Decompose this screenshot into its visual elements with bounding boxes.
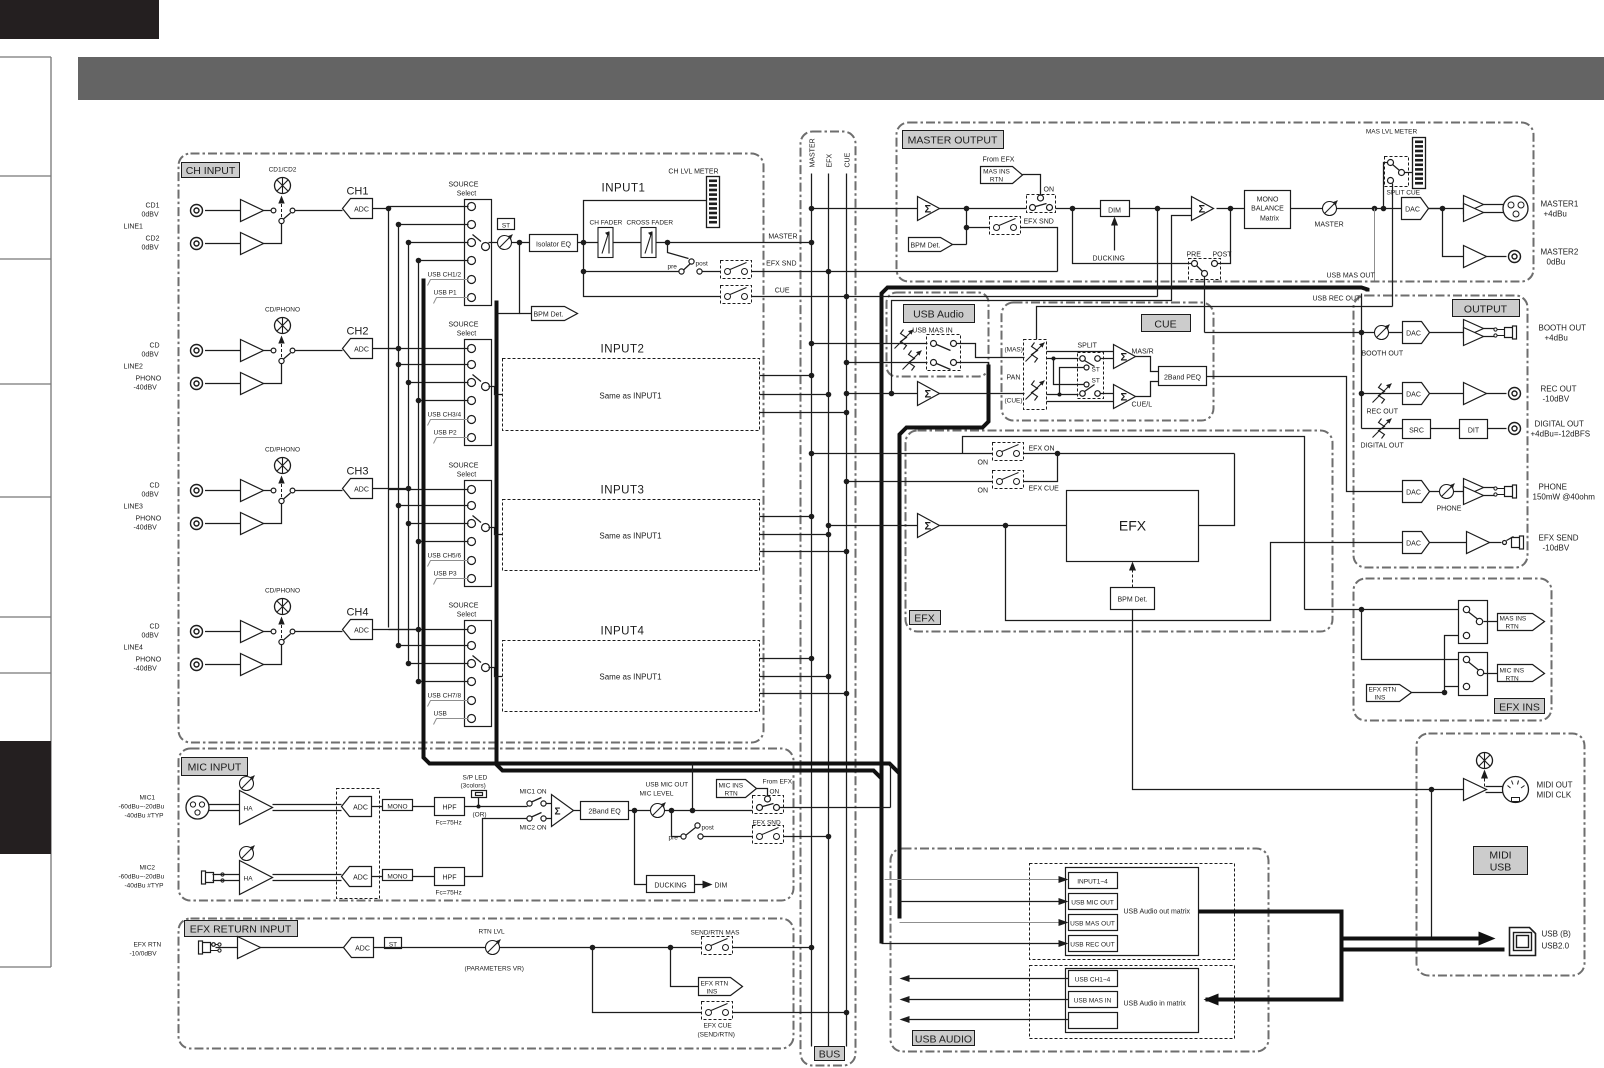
svg-text:PHONO: PHONO	[136, 657, 162, 664]
svg-text:CH2: CH2	[346, 326, 368, 338]
svg-text:0dBV: 0dBV	[142, 352, 159, 359]
ADC	[344, 938, 374, 958]
MAS INS switch	[1459, 601, 1488, 644]
CH LVL METER	[584, 201, 713, 243]
wire ADC distribution verticals	[388, 207, 390, 628]
svg-text:HA: HA	[244, 876, 254, 883]
thick out matrix to USB connector	[1199, 912, 1342, 1000]
svg-text:EFX RETURN INPUT: EFX RETURN INPUT	[190, 924, 292, 936]
EFX RETURN INPUT section border	[179, 919, 794, 1049]
svg-text:CD: CD	[150, 343, 160, 350]
svg-text:Isolator EQ: Isolator EQ	[536, 242, 572, 249]
svg-text:CD1/CD2: CD1/CD2	[269, 167, 297, 174]
svg-text:PHONO: PHONO	[136, 516, 162, 523]
svg-text:CD: CD	[150, 624, 160, 631]
svg-text:Select: Select	[457, 472, 477, 479]
select3 to INPUT3	[489, 528, 503, 535]
svg-text:USB AUDIO: USB AUDIO	[915, 1034, 972, 1046]
svg-text:pre: pre	[668, 264, 678, 271]
svg-text:USB CH1~4: USB CH1~4	[1075, 977, 1111, 984]
BOOTH OUT row	[1205, 332, 1403, 334]
MIDI DIN connector	[1503, 777, 1529, 803]
blank box	[1069, 1013, 1118, 1029]
svg-text:USB CH3/4: USB CH3/4	[428, 412, 462, 419]
MASTER send wire	[656, 242, 812, 244]
svg-text:MONO: MONO	[1257, 197, 1279, 204]
svg-text:SPLIT CUE: SPLIT CUE	[1387, 190, 1421, 197]
svg-text:EFX SND: EFX SND	[1024, 219, 1054, 226]
svg-text:USB REC OUT: USB REC OUT	[1070, 942, 1114, 949]
svg-text:(SEND/RTN): (SEND/RTN)	[698, 1032, 735, 1039]
svg-text:MAS INS: MAS INS	[1500, 616, 1527, 623]
svg-text:RTN: RTN	[725, 791, 739, 798]
svg-text:MIC INS: MIC INS	[1500, 668, 1525, 675]
svg-text:CD: CD	[150, 483, 160, 490]
page header black block	[0, 0, 159, 39]
pot trim	[498, 235, 513, 250]
DIGITAL OUT row	[1362, 428, 1403, 430]
svg-text:MIC INS: MIC INS	[719, 783, 744, 790]
svg-text:BPM Det.: BPM Det.	[534, 312, 564, 319]
svg-text:BPM Det.: BPM Det.	[1118, 597, 1148, 604]
svg-text:EFX: EFX	[1119, 518, 1147, 534]
svg-text:RTN LVL: RTN LVL	[479, 929, 506, 936]
svg-text:From EFX: From EFX	[763, 779, 793, 786]
MIC out riser	[890, 765, 892, 808]
svg-text:EFX SND: EFX SND	[766, 261, 796, 268]
svg-text:USB Audio in matrix: USB Audio in matrix	[1124, 1001, 1187, 1008]
svg-text:INPUT3: INPUT3	[601, 485, 645, 497]
DUCKING arrow into DIM	[1114, 220, 1116, 251]
MIC2 HA amp	[213, 874, 240, 876]
feed from split cue	[1037, 307, 1393, 340]
svg-text:(CUE): (CUE)	[1005, 398, 1023, 405]
EFX RETURN INPUT label	[185, 921, 298, 937]
svg-text:Same as INPUT1: Same as INPUT1	[599, 673, 662, 682]
svg-text:USB P1: USB P1	[434, 290, 458, 297]
REC OUT row	[1362, 393, 1403, 395]
svg-text:BOOTH OUT: BOOTH OUT	[1539, 324, 1587, 333]
ST box	[498, 219, 515, 230]
EFX output loop	[1199, 454, 1235, 526]
USB Audio label	[904, 305, 975, 323]
svg-text:CH INPUT: CH INPUT	[186, 165, 236, 177]
bus CUE line	[846, 174, 848, 1047]
svg-text:EFX SND: EFX SND	[753, 820, 781, 827]
svg-text:Same as INPUT1: Same as INPUT1	[599, 532, 662, 541]
svg-text:DUCKING: DUCKING	[1093, 256, 1125, 263]
svg-text:USB MAS OUT: USB MAS OUT	[1070, 921, 1115, 928]
switch outputs	[957, 344, 1025, 358]
svg-text:BPM Det.: BPM Det.	[911, 243, 941, 250]
svg-text:0dBV: 0dBV	[142, 245, 159, 252]
CUE/L sum	[1114, 385, 1136, 409]
wire cue pickup vertical	[1157, 209, 1159, 297]
svg-text:MASTER: MASTER	[768, 234, 797, 241]
bus EFX line	[828, 174, 830, 1047]
svg-text:Σ: Σ	[555, 807, 561, 818]
mic sum	[546, 803, 552, 805]
master sum amp	[918, 197, 940, 221]
svg-text:EFX INS: EFX INS	[1499, 702, 1540, 714]
INPUT1~4 box	[1069, 873, 1118, 889]
out matrix box	[1066, 868, 1199, 956]
usb wire from midi node	[1432, 790, 1491, 939]
svg-text:MAS LVL METER: MAS LVL METER	[1366, 129, 1418, 136]
EFX CUE switch	[847, 481, 993, 483]
MIDI USB label	[1474, 847, 1528, 875]
svg-text:ST: ST	[1092, 378, 1100, 385]
svg-text:CD1: CD1	[146, 203, 160, 210]
svg-text:post: post	[702, 825, 714, 832]
EFX send path	[1006, 526, 1403, 621]
DUCKING box	[635, 811, 647, 885]
svg-text:USB CH7/8: USB CH7/8	[428, 693, 462, 700]
svg-text:MIDI: MIDI	[1489, 850, 1511, 862]
svg-text:Fc=75Hz: Fc=75Hz	[436, 820, 462, 827]
svg-text:USB MAS IN: USB MAS IN	[1074, 998, 1112, 1005]
svg-text:0dBu: 0dBu	[1547, 258, 1566, 267]
CUE label	[1142, 315, 1191, 332]
svg-text:0dBV: 0dBV	[142, 212, 159, 219]
bypass wire upper	[963, 437, 1305, 610]
svg-text:+4dBu=-12dBFS: +4dBu=-12dBFS	[1531, 430, 1591, 439]
svg-text:ON: ON	[978, 488, 989, 495]
USB audio sum	[918, 382, 940, 406]
svg-text:MONO: MONO	[387, 804, 407, 811]
svg-text:ST: ST	[502, 223, 510, 230]
svg-text:CROSS FADER: CROSS FADER	[627, 220, 674, 227]
svg-text:EFX CUE: EFX CUE	[1029, 486, 1060, 493]
svg-text:RTN: RTN	[990, 177, 1004, 184]
EFX CUE switch	[593, 948, 702, 1013]
svg-text:EFX CUE: EFX CUE	[704, 1023, 733, 1030]
svg-text:LINE4: LINE4	[124, 645, 144, 652]
svg-text:BALANCE: BALANCE	[1251, 206, 1284, 213]
svg-text:SOURCE: SOURCE	[449, 603, 479, 610]
MIC1 ADC dashed enclosure	[337, 789, 380, 899]
svg-text:-10dBV: -10dBV	[1543, 544, 1570, 553]
svg-text:ON: ON	[770, 789, 780, 796]
svg-text:Fc=75Hz: Fc=75Hz	[436, 890, 462, 897]
svg-text:MONO: MONO	[387, 874, 407, 881]
OUTPUT label	[1453, 300, 1520, 317]
attenuator outputs	[1047, 351, 1114, 353]
svg-text:USB REC OUT: USB REC OUT	[1313, 296, 1362, 303]
svg-text:MIC2: MIC2	[140, 865, 156, 872]
MIDI USB section border	[1417, 734, 1585, 976]
svg-text:MASTER: MASTER	[1315, 222, 1344, 229]
svg-text:CD/PHONO: CD/PHONO	[265, 588, 300, 595]
svg-text:DIGITAL OUT: DIGITAL OUT	[1361, 443, 1405, 450]
svg-text:(3colors): (3colors)	[461, 783, 486, 790]
svg-text:post: post	[696, 261, 708, 268]
svg-text:DUCKING: DUCKING	[654, 883, 686, 890]
svg-text:-10/0dBV: -10/0dBV	[130, 951, 158, 958]
thick USB bus vertical right	[497, 301, 882, 939]
svg-text:POST: POST	[1213, 252, 1233, 259]
thick USB bus vertical left	[424, 279, 900, 897]
svg-text:-40dBu #TYP: -40dBu #TYP	[125, 883, 164, 890]
cross connections	[1054, 359, 1084, 385]
USB AUDIO section border	[891, 849, 1269, 1052]
USB REC OUT box	[1069, 936, 1118, 952]
svg-text:DIGITAL OUT: DIGITAL OUT	[1535, 420, 1584, 429]
svg-text:PHONE: PHONE	[1437, 506, 1462, 513]
svg-text:CUE: CUE	[775, 288, 790, 295]
EFX RTN INS tag	[671, 948, 699, 987]
USB CH1~4 box	[1069, 971, 1118, 987]
svg-text:0dBV: 0dBV	[142, 633, 159, 640]
EFX SND switch INPUT1	[702, 271, 721, 273]
svg-text:2Band PEQ: 2Band PEQ	[1164, 375, 1202, 382]
attenuators	[895, 330, 914, 350]
svg-text:CH1: CH1	[346, 186, 368, 198]
svg-text:PHONE: PHONE	[1539, 483, 1567, 492]
XLR master1	[1503, 196, 1528, 221]
svg-text:PAN: PAN	[1007, 375, 1021, 382]
svg-text:Matrix: Matrix	[1260, 216, 1280, 223]
DIM box	[1101, 201, 1130, 217]
EFX block	[1067, 491, 1199, 562]
wire pot to isolator	[512, 242, 530, 244]
EFX ON switch	[812, 453, 993, 455]
svg-text:DIM: DIM	[715, 883, 728, 890]
CH INPUT label	[182, 163, 240, 178]
svg-text:MIC LEVEL: MIC LEVEL	[640, 791, 674, 798]
svg-text:(MAS): (MAS)	[1005, 347, 1023, 354]
svg-text:MIDI OUT: MIDI OUT	[1537, 781, 1573, 790]
svg-text:PRE: PRE	[1187, 252, 1202, 259]
EFX SND branch master	[966, 209, 968, 245]
MAS/R sum	[1114, 345, 1136, 369]
MIC INS RTN tag	[1484, 673, 1498, 675]
BPM to MIDI wire	[1133, 610, 1464, 790]
svg-text:SOURCE: SOURCE	[449, 463, 479, 470]
svg-text:INPUT4: INPUT4	[601, 626, 645, 638]
svg-text:CH FADER: CH FADER	[590, 220, 623, 227]
left page tab column	[0, 57, 51, 967]
USB Audio section border	[887, 293, 989, 377]
svg-text:EFX RTN: EFX RTN	[1369, 687, 1397, 694]
MIC INPUT label	[182, 758, 248, 776]
svg-text:SOURCE: SOURCE	[449, 182, 479, 189]
svg-text:-40dBV: -40dBV	[134, 525, 158, 532]
MIC1 HA amp	[209, 804, 240, 806]
svg-text:MASTER1: MASTER1	[1541, 200, 1579, 209]
svg-text:SEND/RTN MAS: SEND/RTN MAS	[691, 930, 741, 937]
out matrix dashed border	[1030, 864, 1235, 960]
HPF box 2	[435, 868, 465, 886]
svg-text:USB MIC OUT: USB MIC OUT	[1071, 900, 1114, 907]
MIC INS switch	[1459, 653, 1488, 696]
svg-text:MASTER2: MASTER2	[1541, 248, 1579, 257]
MASTER OUTPUT label	[903, 131, 1004, 149]
2Band EQ box	[581, 802, 629, 820]
USB MAS OUT box	[1069, 915, 1118, 931]
svg-text:EFX RTN: EFX RTN	[701, 981, 729, 988]
svg-text:REC OUT: REC OUT	[1541, 385, 1577, 394]
second input loop	[892, 216, 1192, 394]
svg-text:CD/PHONO: CD/PHONO	[265, 447, 300, 454]
svg-text:MAS/R: MAS/R	[1132, 349, 1154, 356]
svg-text:(OR): (OR)	[473, 812, 487, 819]
midi lamp	[1477, 753, 1493, 769]
svg-text:MAS INS: MAS INS	[983, 169, 1010, 176]
wire isolator to faders	[578, 242, 599, 244]
wire bus to master sum	[812, 208, 918, 210]
svg-text:USB Audio out matrix: USB Audio out matrix	[1124, 909, 1191, 916]
svg-text:LINE1: LINE1	[124, 224, 144, 231]
in matrix dashed border	[1030, 966, 1235, 1039]
svg-text:HA: HA	[244, 806, 254, 813]
midi amp	[1464, 779, 1487, 801]
svg-text:CUE: CUE	[845, 152, 852, 167]
svg-text:OUTPUT: OUTPUT	[1464, 304, 1508, 316]
svg-text:CUE/L: CUE/L	[1132, 402, 1153, 409]
MAS IN switch dashed box	[927, 335, 961, 371]
svg-text:Select: Select	[457, 331, 477, 338]
svg-text:USB2.0: USB2.0	[1542, 942, 1570, 951]
svg-text:2Band EQ: 2Band EQ	[588, 809, 621, 816]
svg-text:Same as INPUT1: Same as INPUT1	[599, 392, 662, 401]
svg-text:CH4: CH4	[346, 607, 368, 619]
svg-text:CH3: CH3	[346, 466, 368, 478]
HPF box	[435, 798, 465, 816]
MAS INS RTN tag	[1484, 621, 1498, 623]
select4 to INPUT4	[489, 668, 503, 677]
feed wire	[1305, 609, 1459, 611]
USB MAS IN box	[1069, 992, 1118, 1008]
BPM Det. tag master	[909, 238, 953, 252]
PAN attenuator box	[1024, 340, 1047, 410]
svg-text:+4dBu: +4dBu	[1545, 334, 1568, 343]
EFX sum	[829, 525, 918, 527]
MONO box	[383, 800, 413, 811]
svg-text:MIC2 ON: MIC2 ON	[520, 825, 547, 832]
ST box	[385, 938, 402, 949]
wire select1 to pot	[489, 242, 498, 244]
svg-text:CH LVL METER: CH LVL METER	[668, 169, 718, 176]
svg-text:INPUT1~4: INPUT1~4	[1077, 879, 1108, 886]
gray banner	[78, 57, 1604, 100]
master1 stereo amp	[1464, 196, 1484, 222]
in matrix box	[1066, 969, 1199, 1033]
svg-text:CUE: CUE	[1154, 319, 1176, 331]
svg-text:EFX ON: EFX ON	[1029, 446, 1055, 453]
svg-text:S/P LED: S/P LED	[463, 775, 488, 782]
CH INPUT section border	[179, 154, 764, 743]
svg-text:USB (B): USB (B)	[1542, 930, 1572, 939]
svg-text:BUS: BUS	[819, 1049, 841, 1061]
svg-text:USB MAS IN: USB MAS IN	[912, 328, 952, 335]
svg-text:-40dBV: -40dBV	[134, 385, 158, 392]
svg-text:DIM: DIM	[1108, 208, 1121, 215]
wire faders	[613, 242, 641, 244]
TRS input	[199, 941, 222, 954]
svg-text:150mW @40ohm: 150mW @40ohm	[1533, 493, 1596, 502]
BPM Det. box EFX	[1111, 588, 1155, 610]
svg-text:MIDI CLK: MIDI CLK	[1537, 791, 1572, 800]
master sum2	[1192, 197, 1214, 221]
svg-text:MIC INPUT: MIC INPUT	[188, 762, 242, 774]
CUE switch INPUT1	[584, 243, 721, 297]
svg-text:EFX RTN: EFX RTN	[134, 942, 162, 949]
MASTER volume pot	[1291, 208, 1443, 210]
select2 to INPUT2	[489, 387, 503, 395]
input wires	[812, 343, 928, 345]
svg-text:-10dBV: -10dBV	[1543, 395, 1570, 404]
svg-text:USB CH5/6: USB CH5/6	[428, 553, 462, 560]
thick USB REC OUT bus	[882, 288, 1368, 944]
svg-text:-60dBu~-20dBu: -60dBu~-20dBu	[119, 804, 165, 811]
EFX INS section border	[1354, 579, 1552, 721]
svg-text:USB MIC OUT: USB MIC OUT	[646, 782, 689, 789]
svg-text:MIC1 ON: MIC1 ON	[520, 789, 547, 796]
USB MIC OUT box	[1069, 894, 1118, 910]
svg-text:SOURCE: SOURCE	[449, 322, 479, 329]
EFX SEND row	[1403, 532, 1430, 554]
post/pre mic	[695, 823, 700, 828]
MONO box 2	[383, 870, 413, 881]
MASTER OUTPUT section border	[897, 123, 1534, 282]
svg-text:ST: ST	[1092, 367, 1100, 374]
svg-text:EFX: EFX	[914, 613, 934, 625]
master2 branch	[1443, 209, 1464, 257]
svg-text:+4dBu: +4dBu	[1544, 210, 1567, 219]
svg-text:Select: Select	[457, 612, 477, 619]
BUS region border	[801, 132, 856, 1066]
svg-text:INPUT2: INPUT2	[601, 344, 645, 356]
MIC2 ADC	[342, 867, 372, 887]
svg-text:USB MAS OUT: USB MAS OUT	[1327, 273, 1376, 280]
svg-text:SPLIT: SPLIT	[1078, 343, 1098, 350]
svg-text:RTN: RTN	[1506, 676, 1520, 683]
svg-text:HPF: HPF	[443, 875, 457, 882]
BUS label	[815, 1047, 845, 1061]
svg-text:CD/PHONO: CD/PHONO	[265, 307, 300, 314]
2Band PEQ box	[1159, 367, 1207, 386]
svg-text:(PARAMETERS VR): (PARAMETERS VR)	[465, 966, 524, 973]
split cue drop	[1392, 184, 1394, 307]
svg-text:-40dBV: -40dBV	[134, 666, 158, 673]
arrows into out matrix	[885, 879, 1061, 881]
svg-text:BOOTH OUT: BOOTH OUT	[1362, 351, 1404, 358]
svg-text:RTN: RTN	[1506, 624, 1520, 631]
svg-text:MIC1: MIC1	[140, 795, 156, 802]
USB B connector	[1510, 928, 1536, 956]
svg-text:SRC: SRC	[1409, 428, 1424, 435]
svg-text:EFX: EFX	[827, 154, 834, 168]
svg-text:LINE3: LINE3	[124, 504, 144, 511]
svg-text:EFX SEND: EFX SEND	[1539, 534, 1579, 543]
svg-text:PHONO: PHONO	[136, 376, 162, 383]
svg-text:USB P3: USB P3	[434, 571, 458, 578]
svg-text:-40dBu #TYP: -40dBu #TYP	[125, 813, 164, 820]
svg-text:Select: Select	[457, 191, 477, 198]
PHONE row	[1403, 481, 1430, 503]
svg-text:USB: USB	[1490, 862, 1512, 874]
svg-text:DIT: DIT	[1468, 428, 1480, 435]
svg-text:INS: INS	[707, 989, 719, 996]
MIC1 XLR input	[186, 796, 209, 819]
svg-text:From EFX: From EFX	[983, 157, 1015, 164]
OUTPUT section border	[1354, 296, 1528, 568]
svg-text:HPF: HPF	[443, 805, 457, 812]
to PEQ	[1136, 357, 1159, 372]
svg-text:USB P2: USB P2	[434, 430, 458, 437]
svg-text:pre: pre	[669, 835, 679, 842]
